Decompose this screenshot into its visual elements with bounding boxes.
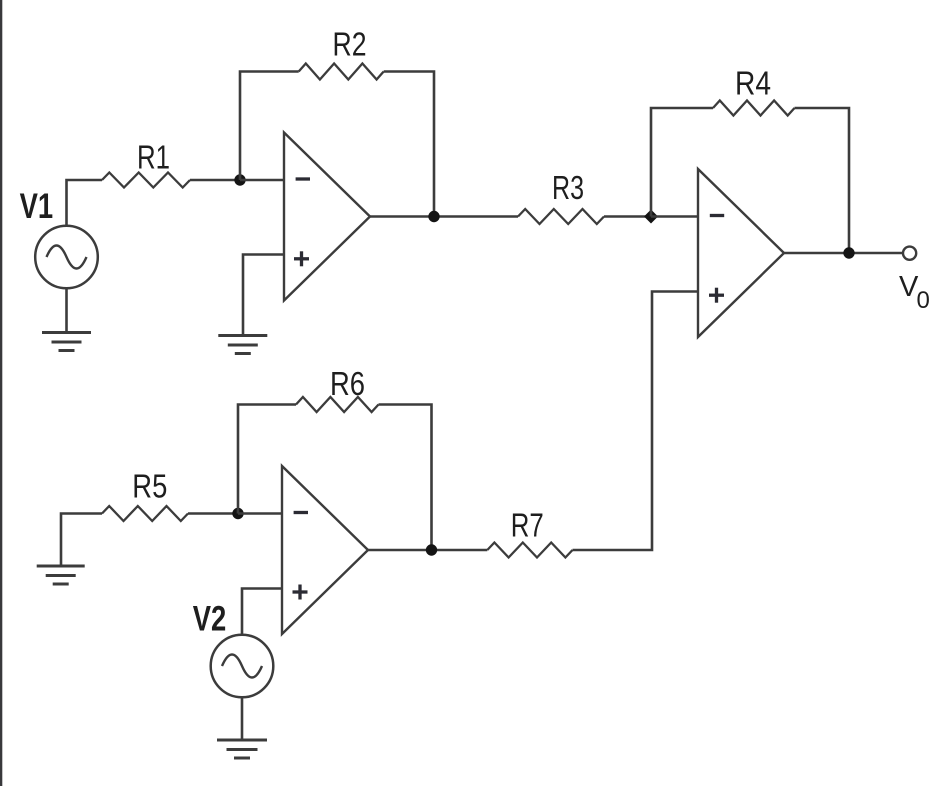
- wire R4 feedback right leg: [795, 108, 850, 253]
- svg-text:R6: R6: [330, 365, 365, 402]
- wire V1 bottom lead: [65, 288, 68, 331]
- svg-text:V1: V1: [20, 187, 54, 226]
- node B junction dot (U1 output): [428, 211, 439, 222]
- op-amp U2 minus sign: [294, 511, 308, 514]
- op-amp U3 minus sign: [710, 214, 724, 217]
- sine wave V1: [47, 246, 87, 269]
- svg-text:R7: R7: [511, 506, 544, 543]
- ground below V1: [42, 333, 91, 351]
- label V0: [899, 271, 930, 314]
- wire U3 output: [784, 252, 903, 255]
- op-amp U1 plus sign: [294, 257, 309, 260]
- left frame border: [0, 0, 2, 786]
- wire R6 feedback right leg: [379, 405, 432, 551]
- resistor R5: [102, 506, 188, 521]
- wire node A to op-amp U1 inverting input: [240, 179, 284, 182]
- wire R1 to node A: [190, 179, 240, 182]
- node F junction dot (U2 output): [426, 544, 437, 555]
- resistor R4: [713, 101, 795, 116]
- wire U1 output: [369, 215, 518, 218]
- wire R3 to node C: [604, 215, 651, 218]
- wire U2 output: [367, 549, 487, 552]
- svg-text:0: 0: [917, 287, 930, 314]
- wire R4 feedback left leg: [651, 108, 713, 217]
- sine wave V2: [222, 655, 262, 678]
- wire R7 to op-amp U3 non-inverting input: [573, 292, 699, 551]
- op-amp U1 minus sign: [296, 177, 310, 180]
- wire R5 left lead from ground: [61, 514, 102, 566]
- svg-text:R5: R5: [132, 468, 167, 505]
- node D junction dot (U3 output): [843, 247, 854, 258]
- output terminal Vo (open circle): [903, 247, 916, 260]
- wire R6 feedback left leg: [238, 405, 296, 514]
- svg-text:R2: R2: [333, 26, 367, 63]
- wire R5 to node E: [188, 512, 238, 515]
- resistor R2: [299, 64, 384, 80]
- svg-text:V2: V2: [193, 600, 227, 639]
- ground below V2: [217, 740, 267, 758]
- svg-text:R3: R3: [552, 169, 584, 206]
- wire R2 feedback left leg: [240, 72, 299, 181]
- op-amp U2 plus sign: [293, 590, 308, 593]
- ground below U1 non-inverting input: [218, 336, 267, 354]
- wire node E to op-amp U2 inverting input: [238, 512, 282, 515]
- node A junction dot: [234, 174, 245, 185]
- resistor R7: [487, 543, 572, 558]
- node E junction dot: [232, 508, 243, 519]
- resistor R3: [518, 209, 604, 224]
- wire node C to op-amp U3 inverting input: [651, 215, 698, 218]
- node C junction (diamond dot): [644, 210, 658, 224]
- wire op-amp U1 non-inverting input to ground: [243, 255, 284, 335]
- svg-text:R1: R1: [137, 138, 170, 175]
- voltage source V1 circle: [35, 226, 98, 289]
- wire op-amp U2 non-inverting input to V2: [242, 589, 282, 635]
- wire R2 feedback right leg: [384, 72, 434, 217]
- svg-text:R4: R4: [735, 64, 771, 101]
- wire V1 top lead: [67, 180, 103, 226]
- wire V2 bottom lead: [241, 697, 244, 739]
- ground at R5 input: [37, 566, 85, 584]
- resistor R1: [102, 173, 190, 188]
- voltage source V2 circle: [211, 635, 274, 698]
- op-amp U1: [284, 133, 370, 301]
- op-amp U3: [698, 169, 784, 337]
- op-amp U3 plus sign: [709, 294, 724, 297]
- resistor R6: [296, 397, 379, 412]
- op-amp U2: [282, 466, 368, 634]
